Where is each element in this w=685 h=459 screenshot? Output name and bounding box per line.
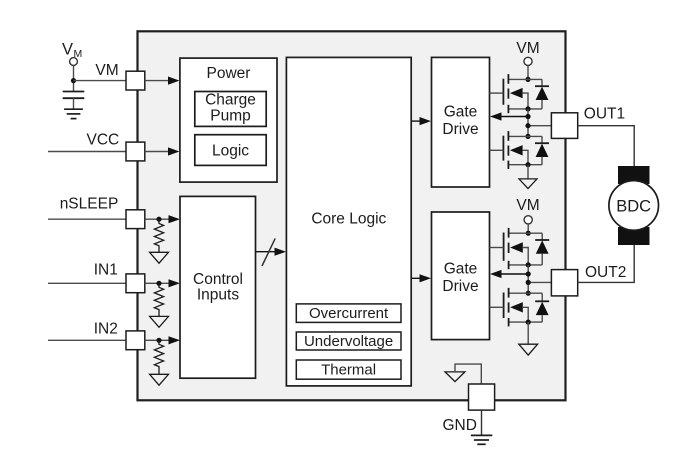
node OUT2 dot [526,280,531,285]
block Core Logic [286,57,411,386]
node IN2 junction dot [156,338,161,343]
block Gate Drive 1 [432,57,490,187]
wire Core Logic to Gate Drive 2 [411,277,422,279]
pin OUT1 [551,113,577,139]
capacitor C1 [63,92,85,110]
node feedback dot [525,114,530,119]
node Q2 drain dot [525,134,530,139]
wire node to OUT2 pin [528,281,551,283]
svg-text:VM: VM [516,40,539,57]
wire feedback to Gate Drive 1 [500,116,528,118]
block Logic [195,135,266,166]
block Power [180,58,277,182]
arrow into Power (VCC) [168,147,180,155]
pin IN1 [126,274,145,293]
transistor Q3 (high side, bridge 2) [490,228,543,269]
ground triangle bridge 2 [519,344,538,355]
svg-text:Gate: Gate [444,260,478,277]
svg-text:Power: Power [207,65,251,82]
terminal circle VM bridge 1 [524,57,532,65]
wire VM pin to Power [145,80,170,82]
svg-text:VM: VM [95,62,118,79]
block Control Inputs [180,196,256,378]
wire OUT1 to motor [578,126,635,167]
wire GND pin to earth [481,410,483,435]
node Q4 drain dot [526,291,531,296]
arrow into Gate Drive 1 [420,117,432,125]
arrow into Control Inputs (IN2) [169,336,181,344]
node Q2 source dot [525,162,530,167]
device outline U1 [138,31,566,400]
svg-text:Gate: Gate [444,103,478,120]
wire OUT2 to motor [578,244,635,282]
wire IN1 pin to Control Inputs [145,282,171,284]
supply terminal circle V_M [70,58,78,66]
body diode D4 [535,293,549,322]
svg-text:Charge: Charge [205,92,256,109]
block Charge Pump [195,92,266,127]
svg-text:nSLEEP: nSLEEP [60,196,119,213]
node IN1 junction dot [156,281,161,286]
svg-text:IN1: IN1 [94,262,118,279]
wire IN2 external [48,339,126,341]
arrow into Gate Drive 2 [420,274,432,282]
node OUT1 dot [525,123,530,128]
arrow into Gate Drive 2 (feedback) [490,270,502,278]
internal ground triangle near GND [445,372,465,382]
pin nSLEEP [126,210,145,229]
resistor R3 (IN2 pulldown) [154,340,163,374]
svg-text:Pump: Pump [210,107,251,124]
svg-text:Drive: Drive [442,121,478,138]
arrow into Gate Drive 1 (feedback) [490,112,502,120]
wire Core Logic to Gate Drive 1 [411,120,422,122]
ground triangle at R3 [150,374,169,385]
wire V_M to VM pin [74,80,127,82]
node nSLEEP junction dot [156,217,161,222]
node Q3 drain dot [526,231,531,236]
pin IN2 [126,331,145,350]
svg-text:Drive: Drive [442,278,478,295]
node Q1 source dot [525,106,530,111]
body diode D2 [535,136,549,164]
pin GND [469,384,495,410]
wire VCC external [48,151,126,153]
arrow into Control Inputs (IN1) [169,279,181,287]
block Overcurrent [296,304,401,323]
node Q4 source dot [526,320,531,325]
svg-text:Overcurrent: Overcurrent [309,305,389,322]
arrow into Core Logic [275,248,287,256]
svg-text:OUT1: OUT1 [584,106,625,123]
block Undervoltage [296,332,401,350]
body diode D1 [535,79,549,109]
svg-text:VM: VM [516,197,539,214]
ground earth symbol at C1 [64,109,83,118]
block Thermal [296,360,401,379]
wire Q4 source to ground [527,322,529,344]
resistor R1 (nSLEEP pulldown) [154,219,163,252]
ground triangle at R1 [150,252,169,263]
pin VCC [126,142,145,161]
wire Q2 source to ground [527,165,529,179]
supply V_M label [62,41,82,61]
motor M1 body [609,181,659,231]
wire IN2 pin to Control Inputs [145,339,171,341]
svg-text:Control: Control [193,271,243,288]
arrow into Power (VM) [168,77,180,85]
svg-text:Core Logic: Core Logic [311,211,386,228]
motor brush top [618,166,650,184]
resistor R2 (IN1 pulldown) [154,283,163,316]
block Gate Drive 2 [432,212,490,340]
wire V_M vertical [73,65,75,91]
svg-text:BDC: BDC [616,197,651,215]
wire node to OUT1 pin [528,125,551,127]
wire IN1 external [48,282,126,284]
wire VM to Q1 drain [527,66,529,80]
wire OUT1 node vertical [527,109,529,136]
transistor Q2 (low side, bridge 1) [490,131,543,169]
wire bus Control Inputs to Core Logic [256,251,278,253]
ground triangle bridge 1 [519,179,537,189]
motor brush bottom [618,227,650,245]
svg-text:VCC: VCC [87,132,120,149]
node Q3 source dot [526,262,531,267]
svg-text:GND: GND [443,417,477,434]
pin VM [126,71,145,90]
terminal circle VM bridge 2 [524,216,532,224]
svg-text:Logic: Logic [212,142,249,159]
wire OUT2 node vertical [527,265,529,293]
svg-text:OUT2: OUT2 [585,264,626,281]
wire nSLEEP pin to Control Inputs [145,218,171,220]
svg-text:V: V [62,41,73,59]
wire nSLEEP external [48,218,126,220]
wire feedback to Gate Drive 2 [500,273,528,275]
transistor Q4 (low side, bridge 2) [490,288,543,327]
wire VCC pin to Power [145,151,170,153]
bus width slash [262,238,275,266]
transistor Q1 (high side, bridge 1) [490,74,543,113]
body diode D3 [535,233,549,265]
ground triangle at R2 [150,316,169,327]
svg-text:IN2: IN2 [94,320,118,337]
ground earth symbol at GND [471,435,492,444]
node Q1 drain dot [525,77,530,82]
svg-text:Thermal: Thermal [321,362,376,379]
pin OUT2 [551,270,577,296]
wire VM to Q3 drain [527,224,529,233]
wire internal ground to GND pin [455,364,481,384]
svg-text:Undervoltage: Undervoltage [304,333,393,350]
arrow into Control Inputs (nSLEEP) [169,215,181,223]
node feedback dot bridge 2 [526,271,531,276]
svg-text:Inputs: Inputs [197,287,239,304]
node VM junction dot [71,78,76,83]
